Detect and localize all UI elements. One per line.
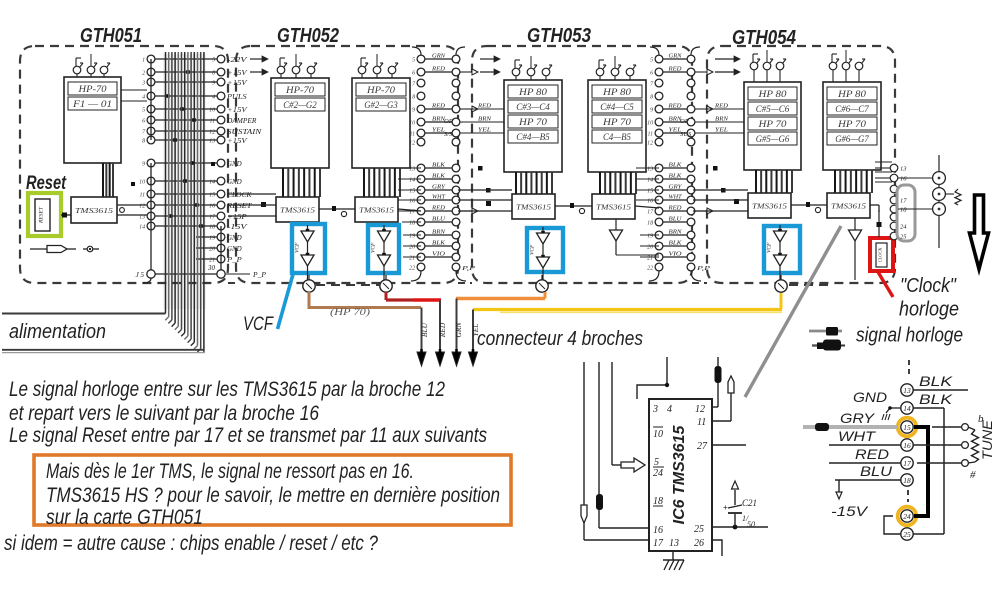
feed wires into GTH054 (RED/BRN/YEL): [695, 103, 744, 134]
wire bundle below HP 80/70 B (GTH053): [600, 172, 636, 194]
connector node GTH052 B: [380, 275, 392, 292]
board GTH054 dashed border: [707, 46, 895, 283]
svg-text:HP-70: HP-70: [285, 85, 315, 95]
svg-text:G#5—G6: G#5—G6: [756, 134, 790, 144]
svg-text:+15V: +15V: [227, 138, 248, 145]
pin J5 (GTH051): [136, 270, 156, 279]
svg-text:C#2—G2: C#2—G2: [283, 100, 317, 110]
svg-text:4: 4: [667, 404, 672, 415]
svg-text:et repart vers le suivant par: et repart vers le suivant par la broche …: [9, 402, 319, 425]
svg-text:GND: GND: [227, 179, 242, 186]
wire yellow: [473, 293, 782, 312]
svg-text:10: 10: [653, 429, 663, 440]
wire pins 24-25 bracket: [884, 516, 901, 534]
svg-text:16: 16: [647, 199, 653, 205]
svg-text:17: 17: [900, 198, 907, 205]
svg-text:alimentation: alimentation: [9, 321, 106, 343]
svg-text:BRN: BRN: [715, 116, 729, 123]
svg-text:HP 70: HP 70: [837, 119, 867, 129]
reset connector (inside green box): [35, 199, 50, 231]
svg-text:11: 11: [697, 417, 706, 428]
wires to tune pot: [913, 427, 961, 463]
svg-text:12: 12: [647, 141, 653, 147]
wire alimentation bottom: [2, 350, 205, 353]
svg-text:GND: GND: [227, 235, 242, 242]
wires GTH054 TMS to right connector: [875, 168, 890, 237]
svg-text:VCF: VCF: [295, 242, 301, 253]
svg-text:GND: GND: [853, 389, 887, 405]
link pin15 to pin24 (thick black): [914, 427, 928, 516]
svg-text:GND: GND: [227, 246, 242, 253]
svg-text:13: 13: [669, 538, 679, 549]
connector node GTH053: [536, 275, 548, 292]
svg-text:17: 17: [903, 459, 911, 468]
svg-text:P,P: P,P: [460, 265, 475, 272]
svg-text:9: 9: [650, 108, 653, 114]
junction dots GTH051 bus: [166, 70, 203, 228]
red pointer line: [878, 272, 893, 297]
svg-text:+: +: [723, 503, 728, 512]
ground IC6 pin13: [663, 551, 684, 570]
buffer amplifiers GTH052 A: [295, 225, 315, 287]
svg-text:8: 8: [412, 95, 415, 101]
svg-text:24: 24: [653, 468, 663, 479]
svg-text:10: 10: [647, 121, 653, 127]
svg-text:5: 5: [650, 58, 653, 64]
wire GRY pin15 (grey): [803, 410, 898, 431]
svg-text:CLOCK: CLOCK: [227, 192, 252, 199]
svg-text:15: 15: [647, 189, 653, 195]
svg-text:22: 22: [647, 266, 653, 272]
svg-text:25: 25: [694, 524, 704, 535]
svg-text:TMS3615: TMS3615: [75, 206, 113, 215]
svg-text:connecteur 4 broches: connecteur 4 broches: [477, 328, 643, 350]
svg-text:12: 12: [695, 404, 705, 415]
svg-text:16: 16: [409, 199, 415, 205]
power bus backdrop GTH051: [163, 54, 206, 309]
svg-text:18: 18: [903, 476, 911, 485]
IC TMS3615 B (GTH054): [827, 193, 870, 218]
wire labels BLU RED GRN YEL (rotated): [420, 322, 480, 339]
buffer amplifiers GTH053 A: [530, 227, 550, 289]
svg-text:GTH051: GTH051: [80, 25, 142, 47]
connector column GTH052-GTH053 socket: [452, 55, 460, 271]
svg-text:HP 80: HP 80: [837, 89, 867, 99]
svg-text:21: 21: [409, 256, 415, 262]
junction square input GTH054 TMS: [734, 199, 739, 204]
column stub curves GTH052-GTH053: [411, 47, 466, 281]
svg-text:C#4—C5: C#4—C5: [600, 102, 634, 112]
legend: clock signal symbol (GTH051): [30, 246, 99, 253]
junction square pin13: [211, 162, 215, 166]
dashed stub above pin 13: [908, 360, 910, 376]
wire J5 to pin30: [155, 273, 217, 275]
svg-text:HP 70: HP 70: [518, 117, 548, 127]
board GTH051 dashed border: [20, 46, 228, 283]
VCF highlight box GTH054 A: [764, 226, 800, 273]
yellow highlight ring pin 24: [898, 507, 917, 526]
svg-text:+15P: +15P: [227, 214, 247, 221]
potentiometers above HP 80/70 B (GTH053): [596, 56, 636, 80]
svg-text:TMS3615: TMS3615: [280, 206, 315, 215]
wire BLK pin13: [913, 373, 968, 390]
svg-text:3: 3: [652, 404, 658, 415]
grey pointer line (TMS to IC6): [745, 226, 841, 397]
svg-text:SUSTAIN: SUSTAIN: [227, 129, 262, 136]
svg-text:Mais dès le 1er TMS, le signal: Mais dès le 1er TMS, le signal ne ressor…: [46, 460, 414, 483]
svg-text:GRY: GRY: [840, 410, 876, 426]
svg-text:-15V: -15V: [227, 224, 248, 231]
svg-text:18: 18: [900, 207, 907, 214]
connector column GTH054 right: [890, 164, 907, 240]
svg-text:C#6—C7: C#6—C7: [835, 104, 869, 114]
svg-text:DAMPER: DAMPER: [226, 118, 257, 125]
speaker box HP 80/70 B (GTH054): [823, 82, 881, 170]
svg-text:17: 17: [647, 210, 654, 216]
trunk wire GTH051 left column: [150, 59, 152, 270]
svg-text:10: 10: [139, 180, 145, 186]
svg-text:6: 6: [650, 71, 653, 77]
svg-text:18: 18: [647, 221, 653, 227]
IC TMS3615 B (GTH053): [592, 194, 635, 219]
svg-text:9: 9: [142, 162, 145, 168]
svg-text:BLU: BLU: [860, 463, 893, 479]
wire red: [386, 292, 441, 300]
svg-text:VCF: VCF: [371, 242, 377, 253]
svg-text:RED: RED: [438, 322, 447, 338]
svg-text:PULS: PULS: [226, 94, 248, 101]
wire TMS chain GTH052: [319, 206, 421, 217]
wire bundle below HP-70 B (GTH052): [364, 168, 400, 197]
svg-text:1: 1: [142, 58, 145, 64]
svg-text:WHT: WHT: [838, 428, 877, 444]
svg-text:GTH052: GTH052: [277, 25, 339, 47]
svg-text:13: 13: [409, 167, 415, 173]
svg-text:OP: OP: [444, 118, 453, 125]
svg-text:C21: C21: [742, 498, 757, 508]
wires HP box GTH051 to pin column: [121, 90, 147, 101]
wire bundle below HP 80/70 B (GTH054): [835, 170, 872, 193]
svg-text:BRN: BRN: [478, 116, 492, 123]
svg-text:IC6 TMS3615: IC6 TMS3615: [671, 425, 688, 525]
svg-text:14: 14: [409, 177, 415, 184]
svg-text:24: 24: [903, 512, 911, 521]
svg-text:50: 50: [747, 520, 755, 529]
board GTH052 dashed border: [236, 46, 458, 283]
svg-text:S/S: S/S: [444, 131, 453, 138]
potentiometers above HP-70 A (GTH052): [277, 54, 317, 78]
column stub curves GTH053-GTH054: [649, 47, 701, 281]
IC6 pin numbers: [652, 404, 708, 549]
VCF highlight box GTH053 A: [527, 228, 563, 272]
wire orange: [456, 292, 545, 299]
svg-text:11: 11: [410, 132, 416, 138]
VCF highlight box GTH052 B: [368, 225, 399, 273]
buffer amplifiers GTH052 B: [371, 225, 391, 287]
svg-text:14: 14: [139, 224, 145, 231]
svg-text:5: 5: [142, 108, 145, 114]
svg-text:HP 70: HP 70: [757, 119, 787, 129]
svg-text:GRN: GRN: [454, 322, 463, 338]
speaker box HP 80/70 A (GTH053): [504, 80, 562, 172]
legend: signal horloge symbol A: [809, 327, 842, 336]
net labels GTH051 right (-22V..P_P): [226, 57, 267, 279]
clock highlight box (red): [870, 238, 893, 271]
svg-text:VCF: VCF: [767, 242, 773, 253]
connector node GTH052 A: [303, 275, 315, 292]
svg-text:HP 80: HP 80: [518, 87, 548, 97]
yellow highlight ring pin 15: [898, 418, 917, 437]
svg-text:8: 8: [650, 95, 653, 101]
svg-text:27: 27: [697, 441, 708, 452]
svg-text:18: 18: [653, 496, 663, 507]
trunk wire GTH051 right column: [220, 226, 222, 270]
svg-text:15: 15: [409, 189, 415, 195]
svg-text:14: 14: [903, 404, 911, 413]
svg-text:"Clock": "Clock": [900, 275, 957, 297]
svg-text:RESET: RESET: [226, 203, 253, 210]
svg-text:9: 9: [412, 108, 415, 114]
junction square input GTH053 TMS: [486, 201, 491, 206]
buffer amplifiers GTH054 A: [767, 225, 787, 287]
svg-text:-15V: -15V: [831, 503, 869, 519]
wire bundle below HP-70 A (GTH052): [283, 168, 320, 197]
IC TMS3615 A (GTH054): [748, 193, 791, 218]
svg-text:6: 6: [142, 119, 145, 125]
IC TMS3615 (GTH051): [71, 197, 117, 223]
svg-text:26: 26: [694, 538, 704, 549]
svg-text:19: 19: [647, 234, 653, 240]
wire bundle below HP 80/70 A (GTH054): [756, 170, 792, 193]
svg-text:20: 20: [647, 245, 653, 251]
wire brown (HP 70): [308, 292, 422, 308]
svg-text:30: 30: [207, 264, 216, 272]
svg-text:GND: GND: [227, 161, 242, 168]
wire IC6 pin3/4 top bracket: [637, 357, 669, 399]
potentiometers above HP-70 B (GTH052): [358, 54, 398, 78]
potentiometers above HP 80/70 A (GTH054): [750, 50, 786, 82]
svg-text:13: 13: [900, 166, 907, 173]
svg-text:TMS3615: TMS3615: [752, 202, 787, 211]
potentiometers above HP 80/70 B (GTH054): [829, 50, 865, 82]
IC TMS3615 A (GTH052): [276, 197, 319, 222]
junction square row10: [131, 182, 135, 186]
svg-text:14: 14: [647, 177, 653, 184]
speaker box HP 80/70 A (GTH054): [744, 82, 801, 170]
svg-text:14: 14: [209, 179, 215, 186]
svg-text:8: 8: [142, 139, 145, 145]
svg-text:Le signal horloge entre sur le: Le signal horloge entre sur les TMS3615 …: [9, 378, 445, 401]
svg-text:BLU: BLU: [420, 322, 429, 337]
wire BLU pin18: [835, 463, 901, 480]
svg-text:25: 25: [903, 530, 911, 539]
wire IC6 pin12 with connector: [712, 357, 722, 407]
svg-text:HP-70: HP-70: [77, 84, 107, 94]
svg-text:F1 — 01: F1 — 01: [72, 99, 112, 109]
svg-text:J 5: J 5: [136, 271, 145, 279]
wire BLK pin14: [913, 391, 953, 534]
speaker box HP-70 A (GTH052): [271, 78, 329, 168]
svg-text:(HP 70): (HP 70): [330, 307, 370, 317]
wire IC6 pin25 with capacitor C21: [712, 481, 768, 529]
speaker box HP-70 (GTH051): [64, 77, 121, 163]
buffer amplifier GTH053 B: [610, 219, 660, 255]
svg-text:4: 4: [212, 94, 215, 101]
power bus GTH051 (13 wires): [165, 52, 204, 352]
svg-text:16: 16: [900, 176, 907, 183]
tune pot terminals: [962, 424, 969, 467]
svg-text:12: 12: [409, 141, 415, 147]
wire bundle below HP-70 (GTH051): [103, 163, 113, 197]
stub J5 curve to border: [143, 278, 151, 283]
wire reset box to TMS3615: [61, 213, 71, 218]
connector outline GTH054 right: [897, 185, 915, 241]
wire alimentation top: [2, 313, 166, 315]
svg-text:G#6—G7: G#6—G7: [835, 134, 869, 144]
wires TMS right to column GTH053: [636, 168, 659, 257]
tuning circles GTH054: [898, 155, 961, 248]
connector column GTH051 right (pins 5-30): [209, 55, 225, 263]
connector column GTH051 left (pins 1-14): [139, 55, 155, 230]
pin wires GTH051 (left col to right col): [155, 59, 217, 259]
svg-text:4: 4: [142, 94, 145, 101]
potentiometers above HP-70 (GTH051): [73, 54, 110, 77]
svg-text:P,P: P,P: [695, 265, 710, 272]
svg-text:+15V: +15V: [227, 70, 248, 77]
svg-text:5: 5: [654, 457, 659, 468]
svg-text:18: 18: [409, 221, 415, 227]
connector column GTH053-GTH054 plug: [647, 55, 663, 271]
board GTH053 dashed border: [472, 46, 692, 283]
wires TMS right to column GTH052: [398, 168, 421, 257]
svg-text:RESET: RESET: [39, 206, 45, 224]
svg-text:6: 6: [412, 71, 415, 77]
speaker box HP-70 B (GTH052): [352, 78, 410, 168]
svg-text:+15V: +15V: [227, 107, 248, 114]
wires into IC6 (left): [581, 362, 649, 540]
svg-text:Le signal Reset entre par 17 e: Le signal Reset entre par 17 et se trans…: [9, 424, 487, 447]
reset highlight box (green): [28, 193, 61, 236]
VCF pointer line (blue): [278, 273, 294, 330]
arrow into IC6 pins 5/24: [621, 458, 645, 472]
arrow stubs between boards: [250, 56, 740, 138]
wire IC6 pin27: [712, 444, 746, 446]
svg-text:17: 17: [653, 538, 664, 549]
svg-text:TMS3615: TMS3615: [596, 203, 631, 212]
svg-text:RED: RED: [714, 103, 729, 110]
svg-text:2: 2: [142, 71, 145, 77]
svg-text:13: 13: [903, 386, 911, 395]
potentiometers above HP 80/70 A (GTH053): [512, 56, 552, 80]
wires TMS right to column GTH054 edge: [875, 162, 892, 182]
svg-text:13: 13: [647, 167, 653, 173]
big down arrow: [970, 195, 989, 269]
svg-text:+15V: +15V: [227, 80, 248, 87]
svg-text:20: 20: [409, 245, 415, 251]
svg-text:11: 11: [648, 132, 654, 138]
svg-text:YEL: YEL: [478, 127, 492, 134]
wires clock/reset into GTH052 TMS: [228, 194, 276, 216]
junction square input GTH052 TMS: [261, 202, 266, 207]
svg-text:signal horloge: signal horloge: [856, 325, 963, 347]
label GND pin14: [853, 389, 901, 420]
tune potentiometer: [968, 413, 995, 481]
svg-text:HP 80: HP 80: [602, 87, 632, 97]
connector pins 13-25: [901, 384, 913, 540]
svg-text:#: #: [970, 469, 976, 481]
wire TMS chain GTH054: [791, 202, 879, 213]
svg-text:CLOCK: CLOCK: [878, 247, 883, 263]
svg-text:P_P: P_P: [252, 270, 266, 279]
orange note box: [34, 455, 511, 525]
svg-text:-22V: -22V: [227, 57, 248, 64]
svg-text:HP 70: HP 70: [602, 117, 632, 127]
svg-text:C#5—C6: C#5—C6: [756, 104, 790, 114]
output arrows GTH053-GTH054: [695, 69, 726, 272]
svg-text:Reset: Reset: [26, 173, 67, 194]
bottom border dash segments: [228, 283, 832, 285]
svg-text:16: 16: [653, 525, 663, 536]
dashed stub between 18 and 24: [907, 490, 909, 502]
svg-text:11: 11: [140, 193, 146, 199]
wire -15V with arrow: [831, 480, 869, 519]
svg-text:P_P: P_P: [226, 257, 242, 264]
IC TMS3615 A (GTH053): [512, 194, 555, 219]
svg-text:GTH053: GTH053: [527, 25, 591, 47]
wires into GTH054 TMS: [693, 190, 748, 211]
svg-text:22: 22: [409, 266, 415, 272]
svg-text:21: 21: [647, 256, 653, 262]
wire colour labels GTH052-GTH053: [425, 53, 452, 258]
svg-text:5: 5: [412, 58, 415, 64]
pin 30 P_P (GTH051): [207, 264, 225, 278]
wire IC6 pin26: [712, 540, 722, 556]
svg-text:RED: RED: [855, 446, 889, 462]
svg-text:BLK: BLK: [919, 373, 953, 389]
buffer amplifier GTH054 B: [849, 218, 862, 280]
output arrows GTH052-GTH053: [460, 69, 491, 272]
wires into GTH053 TMS: [458, 190, 512, 211]
IC6 TMS3615 body: [649, 399, 712, 551]
wire bundle below HP 80/70 A (GTH053): [516, 172, 552, 194]
svg-text:horloge: horloge: [899, 299, 959, 321]
wire colour labels GTH053-GTH054: [663, 53, 687, 258]
svg-text:3: 3: [141, 81, 145, 87]
svg-text:C#3—C4: C#3—C4: [516, 102, 550, 112]
svg-text:SUS: SUS: [680, 131, 692, 138]
svg-text:15: 15: [903, 423, 911, 432]
connector node GTH054: [775, 275, 787, 292]
wire TMS3615 GTH051 to pin column: [117, 205, 147, 215]
svg-text:sur la carte GTH051: sur la carte GTH051: [46, 506, 203, 529]
svg-text:TMS3615 HS ? pour le savoir, l: TMS3615 HS ? pour le savoir, le mettre e…: [46, 484, 500, 507]
svg-text:10: 10: [409, 121, 415, 127]
svg-text:si idem = autre cause : chips: si idem = autre cause : chips enable / r…: [4, 532, 378, 555]
svg-text:YEL: YEL: [715, 127, 729, 134]
wire RED pin17: [829, 446, 901, 463]
connector column GTH052-GTH053 plug: [409, 55, 425, 271]
clock connector (inside red box): [876, 243, 887, 267]
svg-text:GTH054: GTH054: [732, 27, 796, 49]
svg-text:16: 16: [903, 441, 911, 450]
VCF highlight box GTH052 A: [292, 224, 325, 273]
svg-text:TUNE: TUNE: [979, 419, 995, 460]
connector column GTH053-GTH054 socket: [687, 55, 695, 271]
svg-text:RED: RED: [477, 103, 492, 110]
svg-text:HP 80: HP 80: [757, 89, 787, 99]
svg-text:HP-70: HP-70: [366, 85, 396, 95]
legend: signal horloge symbol B: [812, 340, 845, 351]
